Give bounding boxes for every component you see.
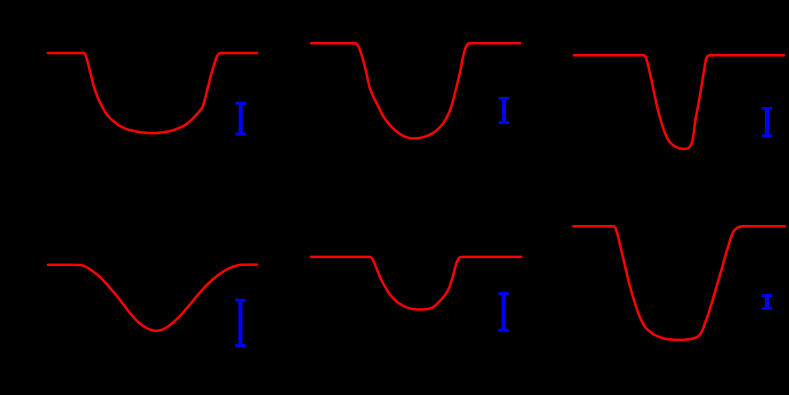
error bar panel 4: [235, 299, 245, 347]
transit light curve panel 1 (top-left): [48, 53, 257, 133]
transit light curve panel 3 (top-right): [574, 55, 784, 149]
transit light curve panel 2 (top-middle): [311, 43, 520, 138]
error bar panel 3: [762, 107, 772, 137]
error bar panel 6: [762, 294, 772, 310]
error bar panel 2: [499, 97, 509, 124]
transit light curve panel 4 (bottom-left): [48, 265, 257, 331]
transit light curve panel 6 (bottom-right): [574, 226, 785, 340]
transit light curve panel 5 (bottom-middle): [311, 257, 521, 310]
error bar panel 1: [236, 102, 246, 136]
error bar panel 5: [498, 292, 508, 331]
